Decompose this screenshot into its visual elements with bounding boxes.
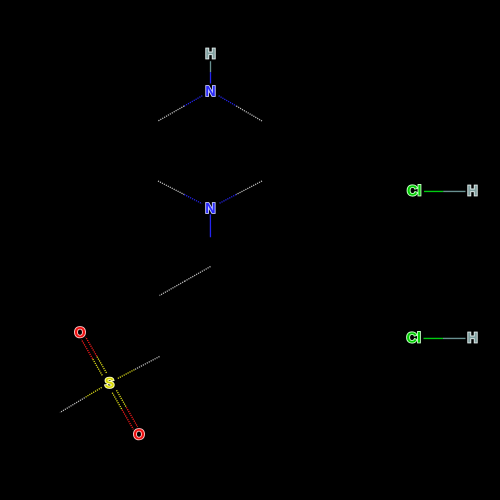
- wire: bond ring N1-C upper-left, N-side half: [184, 96, 202, 106]
- wire: bond S=O lower double-bond line (offset -2.45), S-side half: [117, 390, 127, 407]
- wire: bond ring C-N2 lower-right, C-side half: [236, 181, 262, 195]
- wire: bond S=O lower double-bond line (offset -2.45), O-side half: [126, 407, 137, 427]
- node Cl of HCl #2: atom label "Cl": [407, 332, 420, 343]
- wire: bond S=O upper double-bond line (offset -2.45), S-side half: [93, 359, 103, 376]
- wire: bond H-Cl #2, Cl-side half: [424, 337, 444, 339]
- wire: bond H-N (piperazine N-H), H-side half: [210, 61, 212, 72]
- node S sulfonyl sulfur: atom label "S": [105, 378, 114, 388]
- node N2 piperazine N nitrogen: atom label "N": [206, 203, 215, 213]
- node H of HCl #1: atom label "H": [468, 186, 477, 196]
- wire: bond ring N1-C upper-left, C-side half: [158, 106, 184, 121]
- wire: bond ring N1-C upper-right, C-side half: [236, 106, 262, 121]
- wire: bond ring N1-C upper-right, N-side half: [219, 96, 237, 106]
- wire: bond S=O lower double-bond line (offset 2.45), S-side half: [112, 393, 122, 410]
- wire: bond ring C-N2 lower-left, N-side half: [184, 195, 202, 204]
- node N1 piperazine NH nitrogen: atom label "N": [206, 86, 215, 96]
- wire: bond S=O lower double-bond line (offset 2.45), O-side half: [122, 410, 133, 430]
- wire: bond S=O upper double-bond line (offset 2.45), O-side half: [86, 337, 97, 356]
- node Cl of HCl #1: atom label "Cl": [408, 185, 421, 196]
- wire: bond S=O upper double-bond line (offset 2.45), S-side half: [97, 356, 107, 373]
- node H of HCl #2: atom label "H": [468, 333, 477, 343]
- wire: bond H-Cl #2, H-side half: [443, 337, 466, 339]
- wire: bond chain CH2-CH2, C-side half: [185, 267, 211, 282]
- node H of piperazine N-H: atom label "H": [206, 49, 215, 59]
- wire: bond chain CH2-S, S-side half: [117, 370, 134, 379]
- wire: bond S-CH3 methyl, S-side half: [85, 387, 102, 397]
- wire: bond H-N (piperazine N-H), N-side half: [210, 72, 212, 83]
- wire: bond ring C-N2 lower-left, C-side half: [158, 181, 184, 195]
- wire: bond chain CH2-CH2, C-side half: [160, 281, 186, 296]
- wire: bond S-CH3 methyl, C-side half: [60, 398, 85, 413]
- wire: bond ring C-N2 lower-right, N-side half: [219, 195, 236, 204]
- node O2 sulfonyl oxygen: atom label "O": [134, 429, 144, 439]
- wire: bond N2-CH2 chain start, N-side half: [209, 214, 211, 237]
- wire: bond chain CH2-S, C-side half: [134, 357, 159, 370]
- wire: bond S=O upper double-bond line (offset -2.45), O-side half: [81, 339, 92, 358]
- wire: bond H-Cl #1, Cl-side half: [424, 190, 443, 192]
- wire: bond H-Cl #1, H-side half: [443, 190, 465, 192]
- node O1 sulfonyl oxygen: atom label "O": [75, 327, 85, 337]
